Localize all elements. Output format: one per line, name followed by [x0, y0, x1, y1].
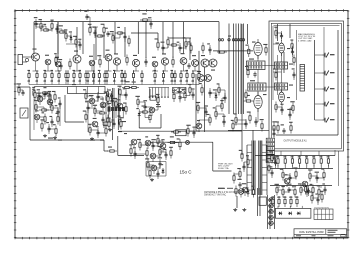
transistor Q6	[105, 54, 112, 61]
wire link F4a	[153, 145, 158, 147]
wire link PT2a	[39, 95, 45, 97]
label M10	[83, 111, 87, 112]
amplifier enclosure outer box	[269, 21, 344, 151]
transformer tap L6	[247, 182, 252, 184]
wire to J5	[315, 119, 323, 121]
capacitor DBC2	[244, 121, 247, 127]
label Q3	[55, 57, 59, 58]
wire link A7b	[70, 36, 72, 38]
wire link G1b	[153, 165, 155, 168]
capacitor GC3	[158, 161, 161, 167]
capacitor PTC2	[37, 93, 40, 99]
wire link M4a	[103, 104, 108, 106]
resistor E2R4	[275, 102, 277, 113]
connector pad a	[218, 39, 220, 41]
wire link F3b	[152, 143, 154, 146]
wire Q12 node	[192, 70, 198, 72]
wire link F22b	[146, 153, 148, 154]
label T2	[59, 59, 63, 60]
wire lead M6	[87, 103, 89, 113]
transistor MQ4	[100, 102, 106, 108]
capacitor AC10	[78, 42, 81, 48]
wire comb drop 1	[149, 88, 151, 97]
wire V3 to U3	[281, 53, 283, 62]
capacitor MC3	[96, 94, 99, 100]
label Q9	[152, 57, 156, 58]
label V3	[276, 43, 280, 44]
transistor IQ1	[238, 189, 244, 195]
label G1	[145, 158, 149, 159]
resistor MrowR4	[294, 187, 296, 198]
resistor VR6	[249, 113, 251, 124]
transformer tap R4	[262, 167, 267, 169]
wire RE26	[186, 80, 188, 85]
label Mrow5	[298, 183, 302, 184]
label DR8	[217, 83, 220, 84]
wire link Mrow5b	[306, 190, 308, 192]
label M5	[105, 92, 108, 93]
wire encl out x281	[280, 151, 282, 156]
resistor RE13	[98, 70, 100, 81]
wire RE11	[87, 80, 89, 85]
label DR7	[197, 120, 200, 121]
relay bank cell 2	[266, 142, 274, 146]
relay contact 2	[111, 107, 114, 111]
wire RE4top	[51, 71, 53, 73]
tube V2	[254, 92, 262, 112]
label RE17b	[121, 81, 124, 82]
resistor CcRh6	[169, 44, 179, 46]
resistor RC3	[284, 196, 286, 207]
wire link PV3a	[185, 95, 190, 97]
wire harness line 2	[233, 24, 235, 115]
label RE16t	[113, 70, 116, 71]
wire tx feed 2	[241, 131, 243, 155]
wire C drop	[157, 33, 159, 42]
label B2	[88, 24, 92, 25]
wire encl link 1	[273, 43, 279, 45]
wire lead F22	[134, 149, 136, 159]
capacitor BC6	[106, 31, 109, 37]
label G3	[158, 157, 162, 158]
wire link A7a	[66, 35, 71, 37]
wire enclosure feed 1	[277, 24, 279, 41]
capacitor DdC2	[208, 47, 211, 53]
resistor RB1	[277, 156, 279, 167]
pad comb 6	[164, 96, 166, 98]
wire link M6a	[88, 107, 95, 109]
wire drop x146	[145, 22, 147, 58]
label PT4	[48, 91, 51, 92]
label RB6	[312, 156, 315, 157]
transistor Q9	[152, 61, 158, 67]
wire link PT2b	[44, 93, 46, 96]
wire L blob v2	[59, 100, 61, 126]
wire lead Mrow9	[324, 185, 326, 195]
wire link L3a	[45, 93, 50, 95]
label A2	[39, 19, 42, 20]
resistor RE21	[154, 70, 156, 81]
capacitor LC16	[47, 126, 50, 132]
label F3	[145, 136, 148, 137]
transistor FQ6	[160, 143, 166, 149]
resistor RBKR1	[268, 163, 270, 174]
wire center lower rail	[151, 130, 200, 132]
wire lead DR3	[215, 91, 217, 101]
label Mrow8	[317, 185, 320, 186]
wire link DB2b	[232, 124, 234, 126]
label H4	[237, 168, 241, 169]
wire enclosure right rail	[337, 30, 339, 135]
transistor Q12	[192, 60, 199, 67]
wire QP2	[268, 205, 274, 207]
transistor Q15	[198, 75, 205, 82]
wire left feed 2	[17, 86, 31, 88]
label Nr5	[320, 191, 324, 192]
label H1	[239, 150, 242, 151]
capacitor FC4	[151, 143, 154, 149]
wire link M1a	[86, 95, 92, 97]
wire lead E22	[293, 70, 295, 80]
label LE1	[17, 83, 21, 84]
resistor BRh4	[95, 35, 105, 37]
wire RE22top	[163, 71, 165, 73]
wire RE21	[154, 80, 156, 85]
text notes block	[298, 33, 316, 42]
wire lead E44	[289, 110, 291, 120]
wire contacts out	[104, 121, 112, 123]
wire enclosure feed 3	[289, 24, 291, 38]
connector pad 1	[228, 39, 230, 41]
wire link B6a	[108, 33, 113, 35]
label RE27b	[192, 81, 195, 82]
wire link J01b	[275, 158, 277, 163]
wire drop x104	[103, 33, 105, 58]
wire tx right rail	[266, 145, 268, 195]
transformer tap R3	[262, 159, 267, 161]
resistor BR7	[112, 33, 114, 44]
wire link Cc8b	[190, 44, 192, 48]
title block outline	[294, 229, 347, 237]
transistor GQ2	[151, 165, 157, 171]
resistor DBR3	[232, 121, 234, 132]
resistor RE9	[79, 70, 81, 81]
IC block U3	[275, 62, 288, 69]
wire link A3b	[51, 26, 53, 30]
label H6	[237, 179, 241, 180]
wire left column	[29, 87, 31, 140]
wire output rail 3	[270, 185, 332, 187]
label B7	[110, 31, 114, 32]
wire enclosure col	[296, 30, 298, 100]
label E43	[290, 101, 294, 102]
resistor RE18	[124, 70, 126, 81]
label K5	[308, 169, 312, 170]
capacitor MrowC9	[323, 187, 326, 193]
wire lead L2e	[39, 102, 41, 105]
transistor MQ11	[92, 121, 98, 127]
wire link F24a	[153, 155, 160, 157]
label PT1	[32, 87, 35, 88]
wire lead Dd2	[209, 45, 211, 55]
wire lead F1e	[133, 145, 135, 148]
label K3	[293, 167, 297, 168]
relay bank cell 5	[266, 155, 274, 159]
capacitor LC10	[56, 109, 59, 115]
resistor F2R7	[170, 148, 172, 159]
wire lead DB2	[245, 119, 247, 129]
resistor RC1	[272, 196, 274, 207]
diode DRD3	[215, 93, 218, 99]
wire U1 to U3 link	[265, 65, 275, 67]
capacitor PVC5	[191, 92, 194, 98]
capacitor MrowC6	[305, 189, 308, 195]
transistor Q11	[180, 58, 187, 65]
relay contact 4	[118, 107, 121, 111]
wire RB5	[306, 165, 308, 169]
transistor MQ2	[89, 98, 95, 104]
resistor E2R3	[275, 70, 277, 81]
label E31	[272, 121, 276, 122]
transistor Q14	[209, 59, 217, 67]
resistor KR3	[295, 169, 297, 180]
label Q7	[114, 53, 118, 54]
label RE12b	[92, 81, 95, 82]
wire bus drop x115	[114, 22, 116, 54]
wire RE11top	[87, 71, 89, 73]
transistor LQ2	[37, 96, 43, 102]
resistor BR10	[128, 36, 130, 47]
label RE4b	[51, 81, 54, 82]
resistor RC2	[278, 196, 280, 207]
connector pad 3	[235, 39, 237, 41]
resistor IR3	[252, 187, 254, 198]
capacitor HC3	[242, 164, 245, 170]
wire RE26top	[186, 71, 188, 73]
wire RE1	[28, 80, 30, 85]
wire link B4a	[100, 35, 104, 37]
label A1	[34, 17, 38, 18]
capacitor DRC9	[223, 95, 226, 101]
resistor F2R1	[130, 146, 132, 157]
resistor BR5	[103, 25, 105, 36]
wire RB7	[320, 165, 322, 169]
wire lead F4	[152, 141, 154, 151]
capacitor BC1	[85, 14, 88, 20]
wire RE27top	[192, 71, 194, 73]
transistor QP4	[269, 215, 273, 219]
transistor NQ3	[117, 103, 123, 109]
label Nr3	[309, 191, 312, 192]
wire tx left rail	[246, 145, 248, 190]
resistor LR7	[35, 102, 37, 113]
label F5	[156, 135, 159, 136]
label A9	[73, 36, 77, 37]
wire link E11b	[281, 33, 283, 36]
wire comb drop 7	[167, 88, 169, 97]
wire lead B3	[94, 28, 96, 38]
label H7	[242, 183, 246, 184]
wire link K5b	[316, 176, 318, 178]
wire link PT1a	[34, 92, 39, 94]
label M6	[85, 101, 89, 102]
wire link PT3a	[45, 92, 50, 94]
label RE1b	[28, 81, 31, 82]
label Dd4	[245, 45, 248, 46]
wire to J1	[315, 54, 323, 56]
wire link M7a	[95, 110, 102, 112]
resistor NrR3	[311, 193, 313, 204]
wire QP4	[268, 216, 274, 218]
wire lead F3e	[147, 146, 149, 149]
wire RE25	[180, 80, 182, 85]
wire relay bank stub	[275, 155, 279, 157]
label RE8b	[73, 81, 76, 82]
wire link Nr1b	[308, 189, 310, 191]
resistor LER1	[18, 85, 20, 96]
wire RE14	[104, 80, 106, 85]
transistor Q5	[89, 60, 95, 66]
resistor RE14	[104, 70, 106, 81]
label PV1	[172, 90, 175, 91]
svg-text:FUSE T2A: FUSE T2A	[218, 167, 229, 170]
wire RE10	[85, 80, 87, 85]
wire link M2b	[97, 97, 99, 101]
wire comb rail	[149, 87, 170, 89]
resistor RE15	[106, 70, 108, 81]
label M7	[93, 105, 97, 106]
label Mrow7	[310, 184, 313, 185]
transformer tap R2	[262, 152, 267, 154]
label net L1	[48, 138, 53, 139]
transformer T1 secondary bars	[259, 141, 262, 196]
resistor RB8	[327, 156, 329, 167]
resistor HR5	[233, 173, 235, 184]
wire lead G6	[157, 169, 159, 179]
wire lead Nr4	[317, 195, 319, 205]
wire bc vert	[212, 142, 214, 160]
capacitor KC2	[288, 175, 291, 181]
wire lead PU2	[111, 91, 113, 101]
label RE21b	[154, 81, 157, 82]
wire harness line 3	[235, 24, 237, 115]
label RE25b	[180, 81, 183, 82]
capacitor KC6	[315, 175, 318, 181]
label F2	[137, 139, 141, 140]
wire Q12 emitter	[194, 66, 196, 71]
resistor NR6	[137, 97, 139, 108]
wire lead DR7e	[198, 129, 200, 132]
label M11	[93, 118, 97, 119]
label RE13t	[98, 70, 101, 71]
label RE9b	[79, 81, 82, 82]
label PW6	[117, 116, 120, 117]
label RE3b	[44, 81, 47, 82]
wire U1 to U2	[257, 70, 259, 84]
label B5	[101, 24, 105, 25]
text power notes	[218, 164, 233, 170]
label R70	[108, 147, 112, 148]
wire contact 1	[108, 111, 110, 118]
wire A rail	[36, 26, 44, 28]
label contacts	[122, 121, 126, 122]
label RE17t	[121, 70, 124, 71]
wire to J3	[315, 88, 323, 90]
resistor FR2	[139, 140, 141, 151]
wire link A5b	[61, 29, 63, 32]
resistor DdRh3	[217, 51, 227, 53]
diode GD4	[162, 168, 165, 174]
resistor NrR1	[304, 184, 306, 195]
capacitor PWC2	[110, 98, 113, 104]
wire lead L16	[48, 124, 50, 134]
wire lead B9	[124, 32, 126, 42]
label net L2	[58, 140, 62, 141]
label RE2b	[36, 81, 39, 82]
wire lm left link h	[104, 150, 108, 152]
label DR5	[204, 105, 208, 106]
wire link B7b	[119, 33, 121, 38]
label N7	[143, 100, 147, 101]
pad comb 3	[155, 96, 157, 98]
wire link DR6b	[198, 120, 200, 126]
jack J5	[323, 118, 335, 123]
transformer tap L4	[247, 167, 252, 169]
wire link A9a	[76, 41, 80, 43]
resistor VR8	[261, 121, 263, 132]
wire link K2a	[290, 177, 296, 179]
wire link M15a	[98, 132, 106, 134]
wire link DR11b	[223, 114, 225, 122]
wire link A1b	[40, 24, 42, 26]
transistor KQ4	[284, 178, 290, 184]
wire RB8	[327, 165, 329, 169]
wire link PV3b	[189, 90, 191, 96]
resistor RB2	[284, 156, 286, 167]
wire lead H7e	[244, 193, 246, 196]
label Nr4	[315, 194, 318, 195]
resistor TR3	[69, 59, 71, 70]
label RE26t	[186, 70, 189, 71]
label U2	[250, 80, 255, 81]
bridge diode D31	[288, 212, 292, 216]
transistor FQ1	[131, 139, 137, 145]
wire link N7a	[145, 106, 152, 108]
wire RE6top	[65, 71, 67, 73]
wire N loop a	[138, 116, 140, 128]
title bottom cells	[296, 235, 345, 237]
wire link F7a	[173, 142, 181, 144]
label A10	[78, 39, 81, 40]
label PW1	[104, 91, 107, 92]
label PV3	[182, 89, 186, 90]
relay contact 3	[115, 107, 118, 111]
resistor AR4	[51, 21, 53, 32]
label E23	[273, 68, 277, 69]
capacitor BC9	[123, 34, 126, 40]
label Cc9	[188, 41, 191, 42]
wire link PU1b	[111, 94, 113, 96]
transformer tap R6	[262, 182, 267, 184]
wire RE18top	[124, 71, 126, 73]
label E11	[274, 27, 277, 28]
fuse grid table	[314, 209, 333, 220]
resistor RE16	[113, 70, 115, 81]
label RE1t	[28, 70, 31, 71]
wire tx top feed	[252, 130, 254, 140]
relay bank cell 1	[266, 138, 274, 142]
wire link I1a	[241, 191, 248, 193]
